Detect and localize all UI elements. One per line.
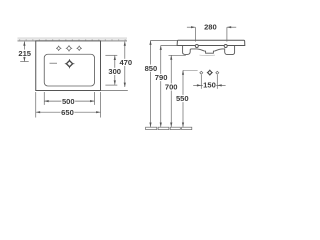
dim 700	[164, 55, 185, 127]
svg-text:500: 500	[62, 97, 75, 106]
dim 215	[17, 41, 32, 61]
floor segment 1	[146, 127, 157, 129]
trap hint	[200, 54, 216, 56]
tap hole left	[56, 46, 61, 51]
dim 650	[36, 108, 101, 117]
dim 500 extension lines	[43, 92, 45, 105]
wall strip bottom edge	[18, 40, 128, 42]
dim 550	[176, 70, 198, 127]
overflow dash	[50, 62, 58, 64]
dim 850	[144, 41, 177, 127]
svg-text:215: 215	[18, 49, 31, 58]
svg-text:300: 300	[108, 67, 121, 76]
drain symbol	[65, 59, 75, 68]
floor segment 4	[182, 127, 192, 129]
dim 790	[154, 46, 177, 127]
dim 280	[187, 23, 236, 42]
fixing hole circle right	[224, 45, 227, 48]
svg-text:850: 850	[145, 64, 158, 73]
floor segment 3	[170, 127, 180, 129]
basin outer rect (plan view)	[36, 41, 101, 91]
tap hole right	[77, 46, 82, 51]
dim 500	[44, 97, 94, 106]
side view slab	[177, 40, 245, 45]
svg-text:470: 470	[119, 58, 132, 67]
basin underside profile	[183, 46, 235, 55]
svg-text:650: 650	[61, 108, 74, 117]
floor segment 2	[158, 127, 169, 129]
lower fixing center symbol	[207, 70, 213, 76]
dim 470	[101, 41, 133, 90]
lower fixing hole right diamond	[216, 71, 219, 74]
wall strip hatch ticks	[19, 39, 127, 41]
svg-text:280: 280	[204, 23, 217, 32]
bowl rounded rect	[44, 54, 94, 86]
wall strip (plan view)	[18, 38, 128, 41]
tap hole middle	[66, 45, 72, 51]
dim 150	[193, 75, 225, 90]
svg-text:150: 150	[203, 81, 216, 90]
svg-text:790: 790	[155, 73, 168, 82]
dim 650 extension lines	[35, 92, 37, 118]
lower fixing hole left diamond	[200, 71, 203, 74]
fixing hole circle left	[195, 45, 198, 48]
svg-text:550: 550	[176, 94, 189, 103]
svg-text:700: 700	[165, 83, 178, 92]
dim 300	[105, 55, 121, 85]
